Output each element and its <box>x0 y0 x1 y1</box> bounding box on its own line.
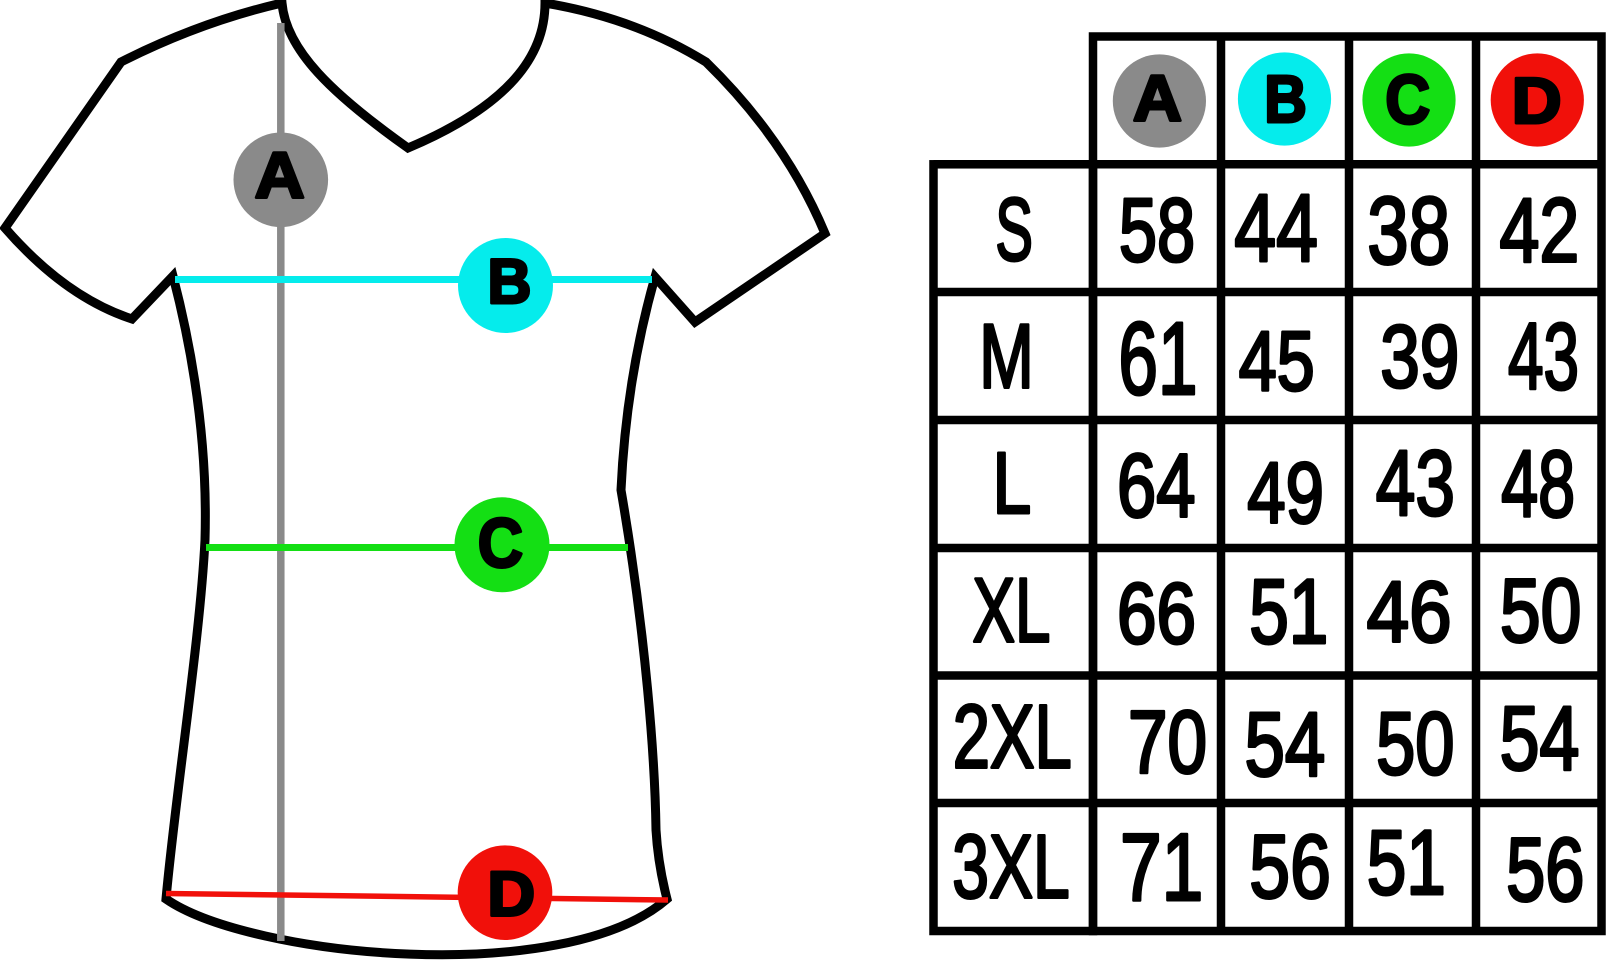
svg-text:56: 56 <box>1249 817 1331 917</box>
svg-text:A: A <box>1133 63 1182 135</box>
table horizontal line S|M <box>934 288 1602 297</box>
header circle D <box>1491 53 1584 146</box>
measurement line B (cyan chest) <box>175 276 652 283</box>
marker circle A on shirt <box>233 133 328 228</box>
measurement line A (gray vertical) <box>277 23 285 941</box>
svg-text:51: 51 <box>1367 813 1446 915</box>
measurement line D (red hem) <box>166 894 668 901</box>
svg-text:70: 70 <box>1128 693 1207 792</box>
svg-text:S: S <box>995 180 1033 279</box>
svg-text:39: 39 <box>1380 307 1459 406</box>
svg-text:48: 48 <box>1501 432 1575 537</box>
marker circle C on shirt <box>455 497 550 592</box>
table outer border of data columns <box>1093 37 1602 932</box>
table horizontal line M|L <box>934 416 1602 425</box>
svg-text:44: 44 <box>1234 175 1318 282</box>
svg-text:49: 49 <box>1247 447 1324 542</box>
header circle B <box>1238 52 1331 145</box>
marker circle B on shirt <box>458 238 553 333</box>
table horizontal line XL|2XL <box>934 671 1602 680</box>
svg-text:43: 43 <box>1508 305 1579 410</box>
svg-text:56: 56 <box>1506 820 1584 920</box>
svg-text:54: 54 <box>1500 688 1580 789</box>
svg-text:61: 61 <box>1118 301 1197 416</box>
svg-text:C: C <box>478 505 523 583</box>
svg-text:71: 71 <box>1120 814 1203 921</box>
svg-text:A: A <box>255 140 305 212</box>
svg-text:M: M <box>979 305 1034 407</box>
table horizontal line header|S <box>934 160 1602 169</box>
table grid <box>934 37 1602 932</box>
table vertical line B|C <box>1345 37 1354 932</box>
svg-text:51: 51 <box>1249 561 1328 663</box>
svg-text:C: C <box>1385 60 1430 138</box>
svg-text:50: 50 <box>1500 561 1582 661</box>
svg-text:66: 66 <box>1117 566 1196 662</box>
svg-text:42: 42 <box>1500 180 1580 281</box>
svg-text:54: 54 <box>1245 694 1326 796</box>
measurement line C (green waist) <box>206 544 628 551</box>
svg-text:45: 45 <box>1239 315 1315 408</box>
table size column left+outer border <box>934 164 1094 931</box>
table horizontal line L|XL <box>934 544 1602 553</box>
svg-text:3XL: 3XL <box>952 816 1069 916</box>
svg-text:D: D <box>1512 65 1562 137</box>
svg-text:64: 64 <box>1117 436 1195 536</box>
t-shirt outline <box>5 3 825 955</box>
svg-text:2XL: 2XL <box>953 686 1072 787</box>
marker circle D on shirt <box>458 845 553 940</box>
header circle A <box>1113 54 1206 147</box>
header circle C <box>1362 53 1455 146</box>
table horizontal line 2XL|3XL <box>934 799 1602 808</box>
svg-text:50: 50 <box>1376 693 1454 793</box>
svg-text:XL: XL <box>973 559 1051 661</box>
svg-text:B: B <box>488 247 532 317</box>
svg-text:B: B <box>1264 63 1307 137</box>
table vertical line A|B <box>1217 37 1226 932</box>
svg-text:43: 43 <box>1376 431 1455 535</box>
svg-text:38: 38 <box>1367 178 1450 285</box>
svg-text:L: L <box>993 434 1032 531</box>
table vertical line C|D <box>1472 37 1481 932</box>
svg-text:58: 58 <box>1119 180 1195 280</box>
svg-text:D: D <box>487 858 535 929</box>
svg-text:46: 46 <box>1367 564 1452 660</box>
